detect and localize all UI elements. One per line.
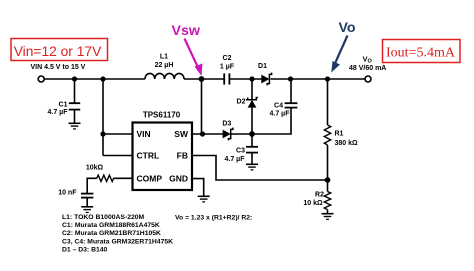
svg-text:TPS61170: TPS61170 bbox=[143, 111, 181, 120]
svg-text:D1 – D3: B140: D1 – D3: B140 bbox=[62, 246, 108, 253]
svg-text:D1: D1 bbox=[258, 63, 267, 70]
svg-text:48 V/60 mA: 48 V/60 mA bbox=[349, 65, 386, 72]
svg-text:380 kΩ: 380 kΩ bbox=[335, 140, 359, 147]
svg-text:Vsw: Vsw bbox=[172, 23, 201, 39]
svg-text:10kΩ: 10kΩ bbox=[86, 165, 104, 172]
svg-text:D2: D2 bbox=[237, 99, 246, 106]
svg-text:10 kΩ: 10 kΩ bbox=[303, 200, 323, 207]
svg-text:4.7 µF: 4.7 µF bbox=[225, 156, 246, 163]
svg-text:Vin=12 or 17V: Vin=12 or 17V bbox=[14, 44, 102, 59]
svg-text:R1: R1 bbox=[335, 131, 344, 138]
svg-text:D3: D3 bbox=[222, 121, 231, 128]
svg-text:Iout=5.4mA: Iout=5.4mA bbox=[386, 46, 456, 61]
svg-text:10 nF: 10 nF bbox=[58, 190, 77, 197]
svg-text:VIN: VIN bbox=[137, 129, 151, 139]
svg-text:GND: GND bbox=[169, 173, 188, 183]
svg-text:Vo: Vo bbox=[339, 20, 356, 36]
svg-text:COMP: COMP bbox=[137, 173, 163, 183]
svg-text:C2: C2 bbox=[223, 55, 232, 62]
svg-text:C1: Murata GRM188R61A475K: C1: Murata GRM188R61A475K bbox=[62, 222, 160, 229]
svg-text:L1: L1 bbox=[160, 54, 168, 61]
svg-text:4.7 µF: 4.7 µF bbox=[270, 111, 291, 118]
svg-text:R2: R2 bbox=[315, 192, 324, 199]
svg-text:VO: VO bbox=[363, 55, 373, 65]
svg-text:C2: Murata GRM21BR71H105K: C2: Murata GRM21BR71H105K bbox=[62, 230, 161, 237]
svg-text:L1: TOKO B1000AS-220M: L1: TOKO B1000AS-220M bbox=[62, 214, 145, 221]
svg-text:VIN 4.5 V to 15 V: VIN 4.5 V to 15 V bbox=[31, 64, 86, 71]
svg-text:22 µH: 22 µH bbox=[155, 62, 174, 69]
svg-text:C4: C4 bbox=[274, 103, 283, 110]
svg-text:4.7 µF: 4.7 µF bbox=[48, 109, 69, 116]
svg-text:FB: FB bbox=[177, 151, 188, 161]
svg-text:C1: C1 bbox=[59, 101, 68, 108]
svg-text:Vo = 1.23 x (R1+R2)/ R2:: Vo = 1.23 x (R1+R2)/ R2: bbox=[175, 215, 252, 222]
svg-text:1 µF: 1 µF bbox=[220, 64, 235, 71]
svg-text:SW: SW bbox=[174, 129, 189, 139]
svg-text:C3, C4: Murata GRM32ER71H475K: C3, C4: Murata GRM32ER71H475K bbox=[62, 238, 173, 245]
svg-text:C3: C3 bbox=[236, 148, 245, 155]
svg-text:CTRL: CTRL bbox=[137, 151, 160, 161]
